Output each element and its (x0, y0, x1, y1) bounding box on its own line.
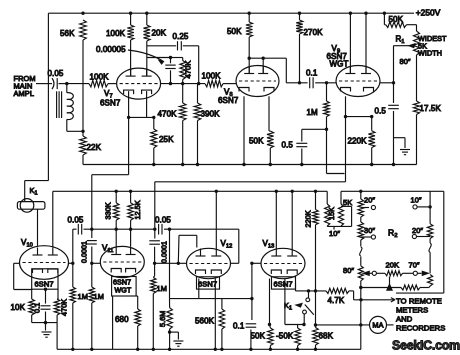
svg-text:220K: 220K (304, 210, 313, 227)
svg-text:AND: AND (396, 315, 413, 324)
svg-text:70″: 70″ (409, 261, 420, 270)
svg-text:6SN7: 6SN7 (113, 279, 131, 287)
svg-text:470K: 470K (184, 61, 193, 79)
svg-text:5.6M: 5.6M (158, 311, 167, 327)
svg-text:WIDTH: WIDTH (418, 49, 442, 58)
svg-text:30″: 30″ (364, 226, 375, 235)
svg-text:SeekIC.com: SeekIC.com (392, 339, 460, 353)
svg-text:270K: 270K (304, 28, 324, 37)
svg-text:AMPL: AMPL (14, 89, 35, 98)
svg-text:50K: 50K (389, 15, 404, 24)
svg-text:MA: MA (372, 321, 383, 330)
svg-text:20K: 20K (152, 29, 167, 38)
svg-text:560K: 560K (195, 317, 215, 326)
svg-text:12.5K: 12.5K (133, 200, 142, 219)
svg-text:100K: 100K (202, 71, 222, 80)
svg-text:0.1: 0.1 (33, 303, 42, 313)
svg-text:56K: 56K (60, 29, 75, 38)
svg-text:220K: 220K (348, 137, 368, 146)
svg-text:15K: 15K (327, 207, 336, 220)
svg-text:50K: 50K (251, 332, 266, 341)
svg-text:50K: 50K (249, 137, 264, 146)
svg-text:0.05: 0.05 (155, 215, 171, 224)
svg-text:0.5: 0.5 (375, 107, 387, 116)
svg-text:+250V: +250V (416, 8, 441, 18)
svg-text:1M: 1M (307, 108, 319, 117)
svg-text:0.05: 0.05 (48, 69, 64, 78)
svg-text:470K: 470K (60, 299, 69, 316)
svg-text:20″: 20″ (364, 195, 375, 204)
svg-text:RECORDERS: RECORDERS (396, 324, 445, 333)
svg-text:0.25: 0.25 (173, 32, 189, 41)
svg-text:TO REMOTE: TO REMOTE (396, 297, 442, 306)
svg-text:100K: 100K (106, 29, 126, 38)
svg-text:80″: 80″ (400, 57, 411, 66)
svg-text:0.00005: 0.00005 (96, 45, 126, 54)
svg-text:6SN7: 6SN7 (274, 280, 293, 289)
svg-text:0.0001: 0.0001 (161, 241, 168, 263)
svg-text:25K: 25K (159, 135, 174, 144)
svg-text:-50K: -50K (276, 332, 294, 341)
svg-text:1M: 1M (78, 292, 88, 301)
svg-text:WGT: WGT (330, 60, 349, 69)
svg-text:0.05: 0.05 (68, 215, 84, 224)
svg-text:50K: 50K (227, 27, 242, 36)
svg-text:20″: 20″ (412, 226, 423, 235)
svg-text:4.7K: 4.7K (328, 296, 345, 305)
svg-text:0.0001: 0.0001 (82, 241, 89, 263)
svg-text:0.1: 0.1 (233, 322, 245, 331)
svg-text:6SN7: 6SN7 (100, 99, 121, 108)
svg-text:100K: 100K (90, 73, 110, 82)
svg-text:10K: 10K (11, 303, 26, 312)
svg-text:0.1: 0.1 (306, 69, 318, 78)
svg-text:METERS: METERS (396, 306, 428, 315)
svg-text:6SN7: 6SN7 (198, 280, 217, 289)
svg-text:80″: 80″ (343, 266, 354, 275)
svg-text:10″: 10″ (411, 195, 422, 204)
svg-text:680: 680 (115, 315, 129, 324)
svg-text:17.5K: 17.5K (420, 104, 442, 113)
svg-text:0.5: 0.5 (282, 141, 294, 150)
svg-text:68K: 68K (319, 332, 334, 341)
svg-text:1M: 1M (157, 284, 167, 293)
svg-text:6SN7: 6SN7 (35, 280, 54, 289)
svg-text:390K: 390K (201, 110, 221, 119)
svg-text:22K: 22K (87, 143, 102, 152)
svg-text:1M: 1M (94, 292, 104, 301)
svg-text:6SN7: 6SN7 (218, 96, 239, 105)
svg-text:10″: 10″ (329, 229, 340, 238)
svg-text:470K: 470K (158, 110, 178, 119)
svg-text:WGT: WGT (115, 287, 132, 295)
svg-text:20K: 20K (386, 261, 400, 270)
svg-text:5K: 5K (343, 198, 352, 207)
svg-text:330K: 330K (104, 202, 113, 219)
